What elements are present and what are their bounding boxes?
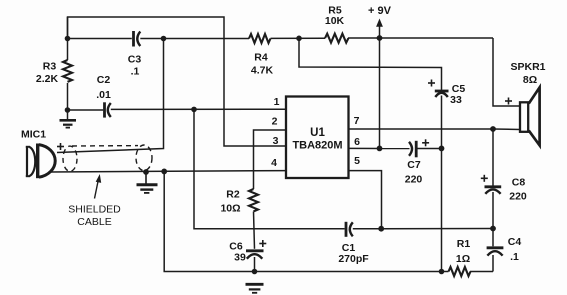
svg-text:1Ω: 1Ω bbox=[456, 253, 470, 265]
capacitor C6 bbox=[246, 251, 264, 272]
svg-text:.01: .01 bbox=[96, 89, 111, 101]
svg-text:8Ω: 8Ω bbox=[523, 74, 537, 86]
plus sign C6 bbox=[259, 240, 266, 247]
wire pin6 to C7 bbox=[349, 147, 410, 149]
resistor R4 bbox=[249, 34, 271, 43]
svg-text:U1: U1 bbox=[310, 127, 325, 139]
svg-text:R2: R2 bbox=[226, 189, 240, 201]
svg-text:C7: C7 bbox=[407, 159, 421, 171]
capacitor C1 bbox=[346, 222, 353, 237]
wire pin1 node down to C1 bbox=[194, 109, 345, 228]
svg-text:220: 220 bbox=[405, 174, 423, 186]
speaker SPKR1 bbox=[520, 87, 540, 145]
resistor R2 bbox=[249, 189, 258, 211]
svg-text:4.7K: 4.7K bbox=[251, 65, 274, 77]
capacitor C2 bbox=[105, 102, 111, 117]
wire bias node down and over to C5 bbox=[299, 38, 442, 90]
svg-text:+ 9V: + 9V bbox=[368, 5, 392, 17]
plus sign speaker bbox=[505, 98, 512, 105]
resistor R5 bbox=[325, 34, 348, 43]
svg-text:3: 3 bbox=[273, 135, 279, 147]
wire output vertical C8/C4 chain bbox=[492, 129, 494, 272]
plus sign mic bbox=[57, 143, 64, 150]
IC U1 box bbox=[286, 97, 349, 179]
wire bootstrap node to speaker minus bbox=[493, 128, 520, 131]
wire C1 right to output node bbox=[353, 228, 493, 230]
svg-text:33: 33 bbox=[450, 94, 462, 106]
wire top loop from R3 top to pin3 bbox=[68, 17, 287, 146]
wire mic hot lead to C3 node bbox=[57, 39, 164, 153]
shielded cable dashed shield bbox=[63, 145, 152, 171]
svg-text:R3: R3 bbox=[43, 61, 57, 73]
wire C7 node down to bottom rail bbox=[441, 148, 443, 271]
svg-text:7: 7 bbox=[354, 115, 360, 127]
wire pin7 to bootstrap node bbox=[349, 128, 494, 130]
svg-text:220: 220 bbox=[509, 191, 527, 203]
svg-text:6: 6 bbox=[354, 136, 360, 148]
wire +9V feed to speaker plus bbox=[493, 38, 520, 106]
wire main bias rail y=38.4 bbox=[68, 37, 494, 40]
svg-text:1: 1 bbox=[274, 96, 280, 108]
svg-text:4: 4 bbox=[271, 157, 277, 169]
resistor R1 bbox=[449, 267, 471, 276]
svg-text:10Ω: 10Ω bbox=[220, 203, 240, 215]
capacitor C5 bbox=[435, 91, 449, 148]
capacitor C7 bbox=[409, 141, 442, 158]
wire pin1 run (R3 gnd to C2 to IC) bbox=[68, 108, 287, 111]
svg-text:2.2K: 2.2K bbox=[36, 73, 59, 85]
ground at cable shield bbox=[137, 172, 158, 193]
capacitor C4 bbox=[487, 248, 504, 256]
svg-text:.1: .1 bbox=[510, 251, 519, 263]
resistor R3 bbox=[63, 17, 72, 119]
svg-text:C2: C2 bbox=[97, 74, 111, 86]
wire pin5 down to output node bbox=[349, 171, 382, 229]
plus sign C7 bbox=[422, 139, 429, 146]
wire bottom ground rail bbox=[164, 171, 493, 271]
+9V arrow bbox=[376, 19, 383, 39]
svg-text:R4: R4 bbox=[254, 52, 268, 64]
svg-text:5: 5 bbox=[354, 155, 360, 167]
svg-text:TBA820M: TBA820M bbox=[292, 140, 342, 152]
arrow for shielded cable callout bbox=[95, 174, 102, 199]
svg-text:C8: C8 bbox=[512, 177, 526, 189]
svg-text:C3: C3 bbox=[128, 54, 142, 66]
capacitor C8 bbox=[485, 187, 502, 194]
svg-text:39: 39 bbox=[234, 252, 246, 264]
svg-text:CABLE: CABLE bbox=[77, 216, 111, 228]
plus sign C5 bbox=[428, 80, 435, 87]
wire pin2 to R2 top bbox=[254, 130, 287, 189]
svg-text:270pF: 270pF bbox=[338, 253, 369, 265]
svg-text:R1: R1 bbox=[457, 238, 471, 250]
svg-text:2: 2 bbox=[272, 116, 278, 128]
capacitor C3 bbox=[134, 31, 141, 47]
microphone MIC1 symbol bbox=[26, 144, 55, 179]
svg-text:SHIELDED: SHIELDED bbox=[68, 204, 121, 216]
plus sign C8 bbox=[481, 175, 488, 182]
svg-text:SPKR1: SPKR1 bbox=[510, 61, 545, 73]
svg-text:10K: 10K bbox=[325, 15, 345, 27]
wire R2 to C6 bbox=[254, 212, 255, 249]
ground under R3 bbox=[60, 120, 77, 127]
wire mic ground / pin4 run bbox=[49, 171, 286, 172]
svg-text:.1: .1 bbox=[131, 66, 140, 78]
svg-text:C4: C4 bbox=[508, 236, 522, 248]
wire +9V down to pin 6 bbox=[379, 38, 381, 148]
svg-text:MIC1: MIC1 bbox=[21, 129, 46, 141]
ground under C6 bbox=[246, 284, 264, 293]
